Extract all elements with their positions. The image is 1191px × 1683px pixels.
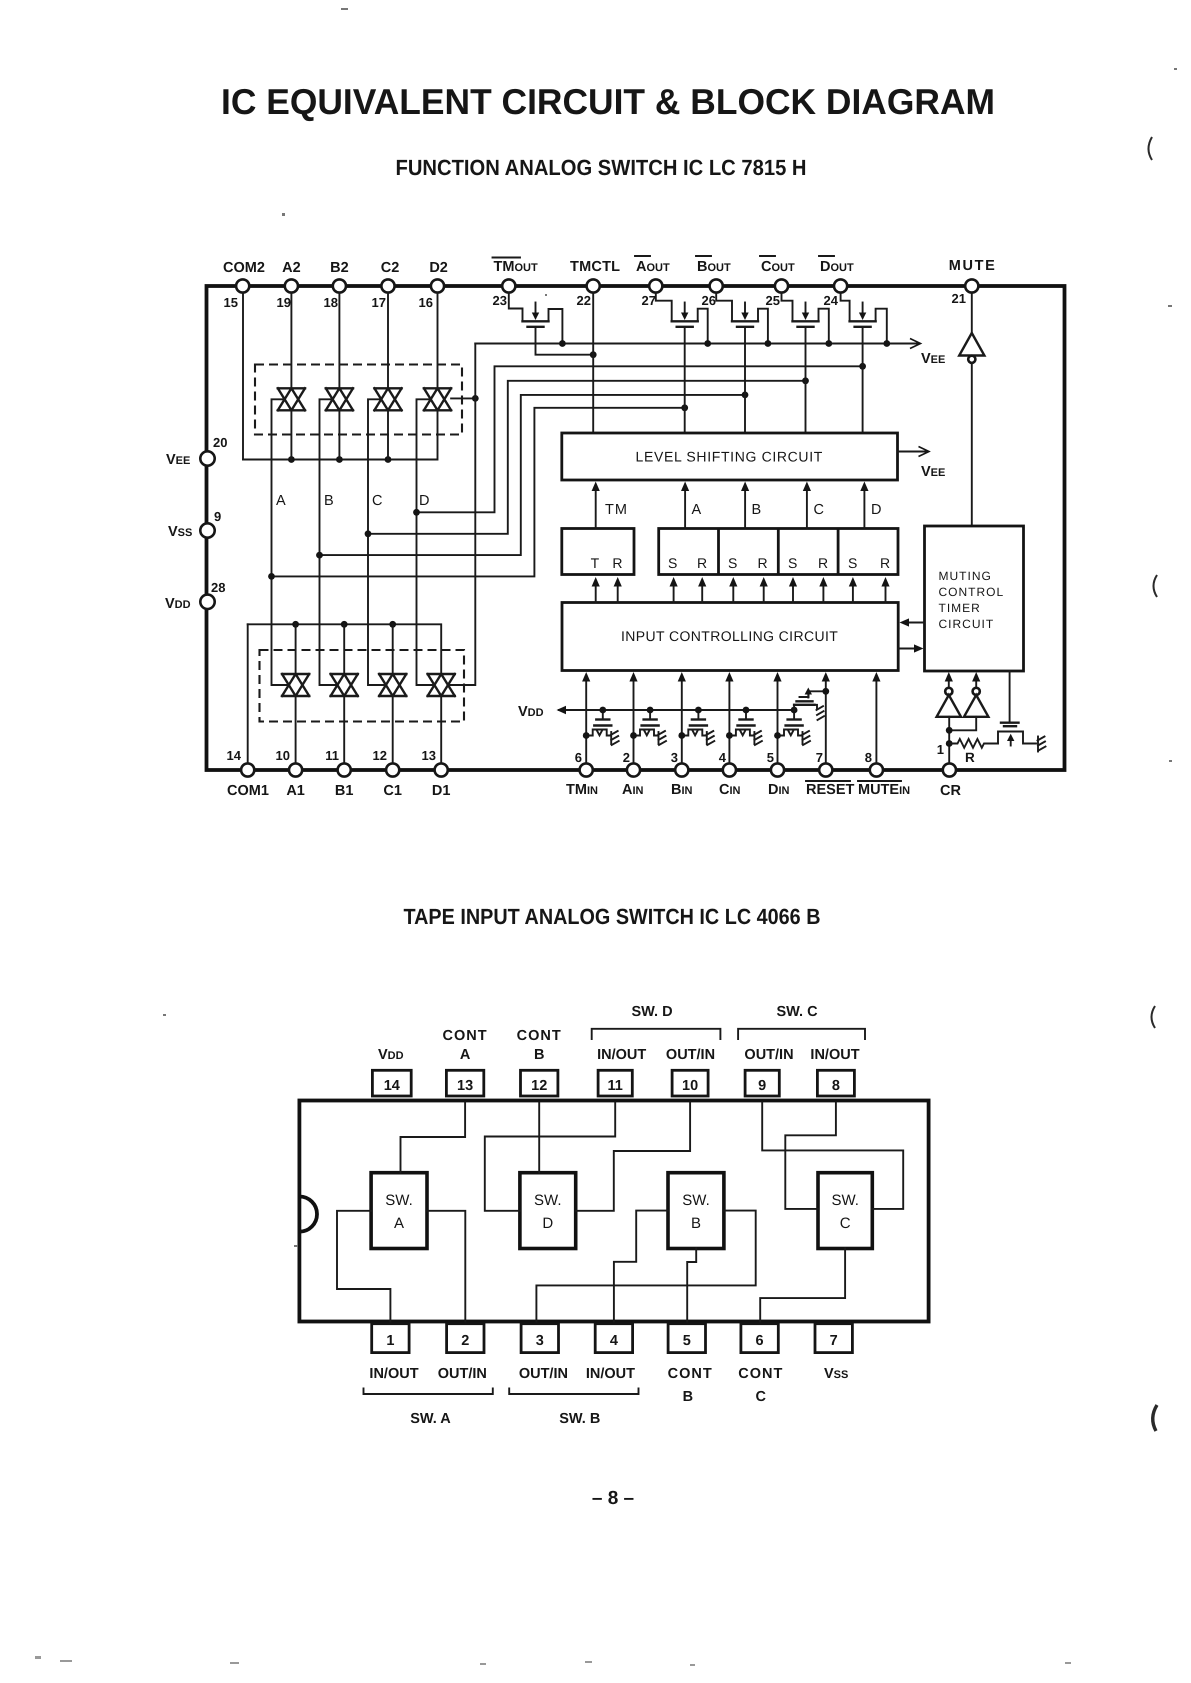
svg-text:IN/OUT: IN/OUT	[369, 1366, 418, 1382]
svg-text:A: A	[460, 1047, 471, 1063]
svg-text:1: 1	[386, 1333, 394, 1349]
pin 24 DOUT	[819, 256, 854, 308]
wire/arrow AIN column	[629, 672, 637, 764]
arrows to R4	[881, 577, 889, 603]
pin 6 TMIN	[566, 750, 598, 798]
svg-text:OUT/IN: OUT/IN	[744, 1047, 793, 1063]
svg-text:8: 8	[865, 750, 872, 765]
node junction route C at control column	[365, 530, 372, 537]
node junction Q-TM drain / VEE rail	[559, 340, 566, 347]
inverter U-MUTE at pin21	[959, 293, 984, 527]
svg-text:SW.: SW.	[385, 1192, 413, 1209]
pin 10 A1	[276, 748, 305, 799]
svg-text:VEE: VEE	[166, 452, 190, 468]
svg-text:9: 9	[758, 1078, 766, 1094]
svg-text:SW. A: SW. A	[410, 1411, 451, 1427]
wire/arrow RESET column	[822, 672, 830, 764]
node junction BIN prot VDD	[695, 707, 702, 714]
svg-text:3: 3	[536, 1333, 544, 1349]
node junction TMIN prot column	[583, 732, 590, 739]
svg-text:B2: B2	[330, 260, 349, 276]
svg-text:CONT: CONT	[668, 1366, 713, 1382]
svg-text:R: R	[880, 555, 891, 571]
svg-text:INPUT CONTROLLING CIRCUIT: INPUT CONTROLLING CIRCUIT	[621, 628, 839, 644]
svg-text:DOUT: DOUT	[820, 259, 854, 275]
svg-text:R: R	[612, 555, 623, 571]
wire/arrow TMIN column	[582, 672, 590, 764]
svg-text:B: B	[324, 493, 334, 509]
pin 8 box	[817, 1070, 854, 1096]
svg-text:3: 3	[671, 750, 678, 765]
svg-text:7: 7	[816, 750, 823, 765]
node junction route A at AOUT gate	[681, 404, 688, 411]
pin 12 box	[521, 1070, 558, 1096]
svg-text:S: S	[788, 555, 799, 571]
pin 7 box	[815, 1324, 852, 1353]
svg-text:S: S	[728, 555, 739, 571]
analog switch S-B2	[326, 388, 353, 410]
transistor Q-C (pin25 output FET)	[782, 293, 829, 344]
svg-text:SW.: SW.	[682, 1192, 710, 1209]
svg-text:VSS: VSS	[824, 1366, 848, 1382]
arrows to S3	[789, 577, 797, 603]
pin 9 VSS (left)	[168, 509, 221, 540]
svg-text:– 8 –: – 8 –	[592, 1488, 634, 1509]
switch block SW.D	[520, 1173, 576, 1249]
node junction DIN prot VDD	[791, 707, 798, 714]
wire B1 bus to switch	[343, 624, 345, 674]
analog switch S-C1	[379, 674, 406, 696]
wire level shifter VEE output arrow	[898, 451, 927, 453]
wire SW.A right to pin2	[427, 1211, 465, 1324]
arrows to R1	[698, 577, 706, 603]
pin 8 MUTEIN	[858, 750, 910, 798]
arrows to S4	[849, 577, 857, 603]
node junction B1-bus	[341, 621, 348, 628]
svg-text:28: 28	[211, 580, 225, 595]
wire pin11 to SW.D left	[485, 1103, 615, 1211]
svg-text:14: 14	[384, 1078, 400, 1094]
svg-text:1: 1	[937, 742, 944, 757]
svg-text:8: 8	[832, 1078, 840, 1094]
svg-text:C2: C2	[381, 260, 400, 276]
wire pin9 to SW.C right	[762, 1103, 903, 1209]
svg-text:VEE: VEE	[921, 351, 945, 367]
svg-text:C: C	[840, 1215, 851, 1232]
wire SW.C control to pin6	[760, 1249, 845, 1324]
wire/arrow TM into level shifter	[592, 482, 600, 529]
svg-text:TMOUT: TMOUT	[494, 259, 538, 275]
pin 11 B1	[325, 748, 353, 799]
svg-text:A2: A2	[282, 260, 301, 276]
transistor Q-CR (timer discharge FET)	[998, 671, 1046, 752]
wire A2 pin to switch	[290, 293, 292, 389]
pin 21 MUTE	[949, 258, 995, 306]
svg-text:A: A	[276, 493, 286, 509]
wire SW.B right to pin3	[536, 1211, 755, 1324]
svg-text:5: 5	[683, 1333, 691, 1349]
transistor Q-B (pin26 output FET)	[716, 293, 768, 344]
pin 13 box	[446, 1070, 483, 1096]
node junction TMCTL gate tap	[590, 351, 597, 358]
node junction route D at DOUT gate	[859, 363, 866, 370]
wire D2 pin to switch	[437, 293, 439, 389]
svg-text:26: 26	[702, 293, 716, 308]
wire/arrow B into level shifter	[741, 482, 749, 529]
svg-text:22: 22	[577, 293, 591, 308]
svg-text:6: 6	[756, 1333, 764, 1349]
svg-text:SW.: SW.	[534, 1192, 562, 1209]
node junction C2-bus	[385, 456, 392, 463]
pin 18 B2	[324, 260, 349, 310]
svg-text:IN/OUT: IN/OUT	[597, 1047, 646, 1063]
node junction TMIN prot VDD	[599, 707, 606, 714]
pin 25 COUT	[760, 256, 795, 308]
svg-text:IN/OUT: IN/OUT	[810, 1047, 859, 1063]
svg-text:C: C	[372, 493, 382, 509]
switch block SW.C	[818, 1173, 872, 1249]
svg-text:VEE: VEE	[921, 464, 945, 480]
pin 27 AOUT	[635, 256, 670, 308]
wire pin13 to SW.A control	[401, 1103, 466, 1173]
svg-text:17: 17	[372, 295, 386, 310]
svg-text:20: 20	[213, 435, 227, 450]
wire/arrow DIN column	[773, 672, 781, 764]
package notch	[299, 1197, 317, 1232]
protection cell at TMIN	[586, 710, 619, 745]
wire route D: control D to DOUT gate	[417, 366, 863, 512]
svg-text:OUT/IN: OUT/IN	[519, 1366, 568, 1382]
svg-text:11: 11	[608, 1078, 623, 1094]
protection cell at CIN	[729, 710, 762, 745]
pin 2 box	[447, 1324, 484, 1353]
svg-text:B: B	[752, 502, 762, 518]
wire control column C	[368, 399, 386, 685]
S-R flip-flop block (4 cells)	[659, 529, 898, 575]
wire/arrow BIN column	[678, 672, 686, 764]
INPUT CONTROLLING CIRCUIT block	[562, 603, 898, 671]
svg-text:BOUT: BOUT	[697, 259, 731, 275]
pin 4 CIN	[719, 750, 741, 798]
arrows to R3	[819, 577, 827, 603]
transistor Q-A (pin27 output FET)	[656, 293, 708, 344]
node junction route B at control column	[316, 552, 323, 559]
wire upper COM2 bus	[243, 410, 438, 459]
svg-text:10: 10	[276, 748, 290, 763]
svg-text:2: 2	[623, 750, 630, 765]
svg-text:SW. B: SW. B	[559, 1411, 600, 1427]
analog switch S-A1	[282, 674, 309, 696]
svg-text:TMCTL: TMCTL	[570, 259, 620, 275]
svg-text:B1: B1	[335, 783, 354, 799]
pin 9 box	[745, 1070, 779, 1096]
label CONT B pin5	[668, 1366, 713, 1405]
svg-text:D: D	[542, 1215, 553, 1232]
node junction BIN prot column	[678, 732, 685, 739]
svg-text:CR: CR	[940, 783, 961, 799]
arrows to S1	[670, 577, 678, 603]
wire C1 switch to pin12	[392, 696, 394, 764]
svg-text:12: 12	[373, 748, 387, 763]
svg-text:SW. D: SW. D	[631, 1004, 672, 1020]
wire U-M2 output to CR column	[949, 717, 976, 731]
protection cell at AIN	[634, 710, 667, 745]
node junction CR/inverters	[946, 727, 953, 734]
node junction Q-C drain / VEE rail	[825, 340, 832, 347]
wire A1 bus to switch	[295, 624, 297, 674]
svg-text:B: B	[691, 1215, 701, 1232]
svg-text:13: 13	[422, 748, 436, 763]
svg-text:D: D	[871, 502, 881, 518]
svg-text:24: 24	[824, 293, 839, 308]
protection cell at BIN	[682, 710, 715, 745]
svg-text:AOUT: AOUT	[636, 259, 670, 275]
wire/arrow CIN column	[725, 672, 733, 764]
wire D1 switch to pin13	[440, 696, 442, 764]
pin 5 DIN	[767, 750, 790, 798]
svg-text:S: S	[668, 555, 679, 571]
pin 2 AIN	[622, 750, 644, 798]
svg-text:27: 27	[642, 293, 656, 308]
svg-text:VDD: VDD	[518, 704, 544, 720]
wire COM2 pin15 column down to upper bus	[242, 293, 244, 460]
wire B1 switch to pin11	[343, 696, 345, 764]
pin 22 TMCTL	[570, 259, 620, 308]
svg-text:RESET: RESET	[806, 782, 854, 798]
svg-text:TAPE INPUT ANALOG SWITCH IC LC: TAPE INPUT ANALOG SWITCH IC LC 4066 B	[404, 904, 821, 929]
svg-text:S: S	[848, 555, 859, 571]
svg-text:SW. C: SW. C	[776, 1004, 818, 1020]
pin 10 box	[672, 1070, 708, 1096]
svg-text:9: 9	[214, 509, 221, 524]
scan speckles	[163, 8, 1177, 1247]
node junction D2 stub	[472, 395, 479, 402]
wire B2 pin to switch	[338, 293, 340, 389]
node junction A2-bus	[288, 456, 295, 463]
svg-text:19: 19	[277, 295, 291, 310]
svg-text:5: 5	[767, 750, 774, 765]
node junction A1-bus	[292, 621, 299, 628]
wire/arrow C into level shifter	[803, 482, 811, 529]
transistor Q-RESET (pull-up FET at RESET pin)	[794, 688, 826, 721]
svg-text:R: R	[965, 750, 975, 765]
arrows input controlling to R input (TR)	[614, 577, 622, 603]
pin 13 D1	[422, 748, 451, 799]
svg-text:VSS: VSS	[168, 524, 192, 540]
wire C2 switch to bus	[387, 410, 389, 459]
wire/arrow D into level shifter	[860, 482, 868, 529]
node junction Q-D drain / VEE rail	[883, 340, 890, 347]
VEE arrowhead (open, level shifter)	[919, 447, 930, 457]
resistor R	[949, 739, 998, 748]
svg-text:TM: TM	[605, 502, 628, 518]
svg-text:23: 23	[493, 293, 507, 308]
analog switch S-D1	[428, 674, 455, 696]
svg-text:COM1: COM1	[227, 783, 269, 799]
pin 1 box	[372, 1324, 409, 1353]
pin 14 COM1	[227, 748, 269, 799]
svg-text:MUTING: MUTING	[939, 569, 992, 583]
pin 20 VEE (left)	[166, 435, 227, 468]
svg-text:D2: D2	[429, 260, 448, 276]
switch block SW.B	[668, 1173, 724, 1249]
svg-text:COUT: COUT	[761, 259, 795, 275]
pin 11 box	[598, 1070, 632, 1096]
wire C2 pin to switch	[387, 293, 389, 389]
svg-text:11: 11	[325, 748, 339, 763]
pin 15 COM2	[223, 260, 265, 310]
wire B2 switch to bus	[338, 410, 340, 459]
pin 19 A2	[277, 260, 301, 310]
node junction CR/resistor	[946, 740, 953, 747]
pin 5 box	[668, 1324, 705, 1353]
wire AOUT gate column to level shifter	[684, 328, 686, 434]
analog switch S-A2	[278, 388, 305, 410]
svg-text:R: R	[818, 555, 829, 571]
wire control column B	[320, 399, 338, 685]
wire/arrow MUTEIN column	[872, 672, 880, 764]
arrow input controlling to muting	[898, 644, 923, 652]
pin 28 VDD (left)	[165, 580, 225, 612]
wire A1 switch to pin10	[295, 696, 297, 764]
wire D2 switch right stub to VEE rail	[451, 397, 475, 399]
analog switch S-B1	[331, 674, 358, 696]
svg-text:TIMER: TIMER	[939, 601, 981, 615]
svg-text:CIRCUIT: CIRCUIT	[939, 617, 995, 631]
wire route C: control C to COUT gate	[368, 381, 806, 534]
svg-text:2: 2	[461, 1333, 469, 1349]
svg-text:CONT: CONT	[738, 1366, 783, 1382]
wire pin8 to SW.C left	[785, 1103, 836, 1209]
pin 1 CR	[937, 742, 962, 799]
pin 16 D2	[419, 260, 448, 310]
svg-text:21: 21	[952, 291, 966, 306]
arrows to S2	[729, 577, 737, 603]
node junction route B at BOUT gate	[742, 392, 749, 399]
svg-text:DIN: DIN	[768, 782, 790, 798]
node junction route C at COUT gate	[802, 377, 809, 384]
wire SW.B control to pin5	[687, 1249, 696, 1324]
wire VEE drain bus to arrow	[475, 343, 918, 345]
node junction CIN prot column	[726, 732, 733, 739]
wire/arrow A into level shifter	[681, 482, 689, 529]
bracket SW. C	[738, 1029, 865, 1039]
svg-text:4: 4	[610, 1333, 618, 1349]
svg-text:B: B	[534, 1047, 544, 1063]
label CONT C pin6	[738, 1366, 783, 1405]
svg-text:C1: C1	[383, 783, 402, 799]
svg-text:LEVEL SHIFTING CIRCUIT: LEVEL SHIFTING CIRCUIT	[636, 449, 824, 465]
LEVEL SHIFTING CIRCUIT block	[562, 433, 898, 480]
svg-text:6: 6	[575, 750, 582, 765]
pin 3 box	[521, 1324, 558, 1353]
svg-text:13: 13	[457, 1078, 473, 1094]
T-R flip-flop block	[562, 529, 634, 575]
MUTING CONTROL TIMER CIRCUIT block	[925, 526, 1024, 671]
node junction Q-B drain / VEE rail	[765, 340, 772, 347]
svg-text:B: B	[683, 1389, 693, 1405]
dashed box upper switch group	[255, 365, 462, 435]
VDD rail with arrow	[557, 706, 795, 714]
wire Q-TM gate to TMCTL	[536, 328, 594, 355]
svg-text:14: 14	[227, 748, 242, 763]
wire COM1 pin14 column up to lower bus	[247, 624, 249, 763]
wire control column D	[417, 399, 435, 685]
node junction CIN prot VDD	[743, 707, 750, 714]
svg-text:MUTE: MUTE	[949, 258, 995, 274]
pin 7 RESET	[806, 750, 854, 798]
node junction DIN prot column	[774, 732, 781, 739]
svg-text:SW.: SW.	[831, 1192, 859, 1209]
pin 14 box	[372, 1070, 411, 1096]
svg-text:FUNCTION ANALOG SWITCH IC LC 7: FUNCTION ANALOG SWITCH IC LC 7815 H	[396, 155, 807, 180]
svg-text:D1: D1	[432, 783, 451, 799]
svg-text:4: 4	[719, 750, 727, 765]
wire pin12 to SW.D control	[538, 1103, 540, 1173]
wire TMCTL pin22 column to level shifter	[592, 293, 594, 434]
svg-text:TMIN: TMIN	[566, 782, 598, 798]
analog switch S-C2	[374, 388, 401, 410]
pin 6 box	[741, 1324, 778, 1353]
svg-text:C: C	[814, 502, 824, 518]
svg-text:10: 10	[682, 1078, 698, 1094]
svg-text:12: 12	[531, 1078, 547, 1094]
bracket SW. A (bottom)	[364, 1389, 493, 1395]
bracket SW. B (bottom)	[509, 1389, 638, 1395]
wire BOUT gate column to level shifter	[744, 328, 746, 434]
switch block SW.A	[371, 1173, 427, 1249]
svg-text:R: R	[758, 555, 769, 571]
svg-text:D: D	[419, 493, 429, 509]
wire control column A	[272, 399, 289, 685]
arrows input controlling to T input	[592, 577, 600, 603]
wire SW.A left to pin1	[337, 1211, 390, 1324]
svg-text:25: 25	[766, 293, 780, 308]
node junction route D at control column	[413, 509, 420, 516]
svg-text:AIN: AIN	[622, 782, 644, 798]
wire lower COM1 bus	[248, 624, 442, 674]
svg-text:CONT: CONT	[517, 1028, 562, 1044]
svg-text:OUT/IN: OUT/IN	[438, 1366, 487, 1382]
svg-text:OUT/IN: OUT/IN	[666, 1047, 715, 1063]
svg-text:C: C	[756, 1389, 767, 1405]
VEE arrowhead (open)	[910, 339, 921, 349]
svg-text:MUTEIN: MUTEIN	[858, 782, 910, 798]
wire pin10 to SW.D right	[576, 1103, 690, 1211]
wire DOUT gate column to level shifter	[862, 328, 864, 434]
svg-text:R: R	[697, 555, 708, 571]
node junction AIN prot column	[630, 732, 637, 739]
svg-text:CONTROL: CONTROL	[939, 585, 1005, 599]
svg-text:A1: A1	[286, 783, 305, 799]
wire SW.B left to pin4	[614, 1211, 668, 1324]
pin 3 BIN	[671, 750, 693, 798]
inverter U-M2 (muting timer input)	[964, 672, 988, 717]
wire A2 switch to bus	[290, 410, 292, 459]
IC body outline LC7815H	[207, 286, 1065, 770]
pin 17 C2	[372, 260, 400, 310]
arrow muting to input controlling	[900, 618, 925, 626]
wire route A: control A to AOUT gate	[272, 408, 685, 577]
node junction Q-A drain / VEE rail	[704, 340, 711, 347]
analog switch S-D2	[424, 388, 451, 410]
pin 26 BOUT	[696, 256, 731, 308]
svg-text:VDD: VDD	[165, 596, 191, 612]
label CONT B pin12	[517, 1028, 562, 1063]
wire VEE substrate rail vertical	[448, 344, 475, 686]
svg-text:IN/OUT: IN/OUT	[586, 1366, 635, 1382]
svg-text:IC EQUIVALENT CIRCUIT & BLOCK: IC EQUIVALENT CIRCUIT & BLOCK DIAGRAM	[221, 81, 995, 122]
